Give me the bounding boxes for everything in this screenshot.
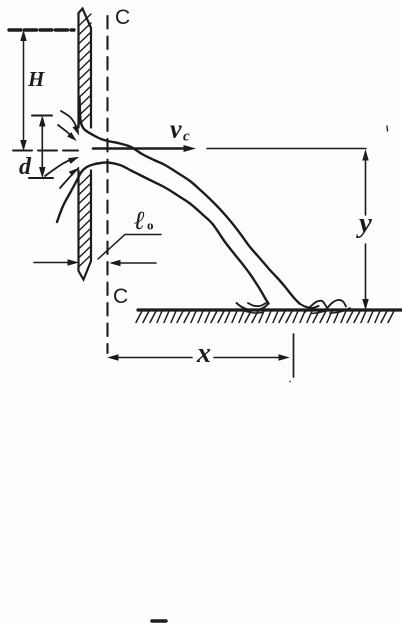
svg-text:C: C <box>113 285 128 308</box>
svg-text:c: c <box>183 129 190 145</box>
svg-text:o: o <box>147 218 154 233</box>
svg-text:C: C <box>115 6 130 29</box>
svg-text:d: d <box>19 154 32 180</box>
svg-text:ℓ: ℓ <box>134 206 145 235</box>
svg-text:v: v <box>170 115 182 144</box>
svg-text:y: y <box>356 207 372 239</box>
svg-text:x: x <box>196 338 211 369</box>
svg-text:H: H <box>27 67 45 91</box>
